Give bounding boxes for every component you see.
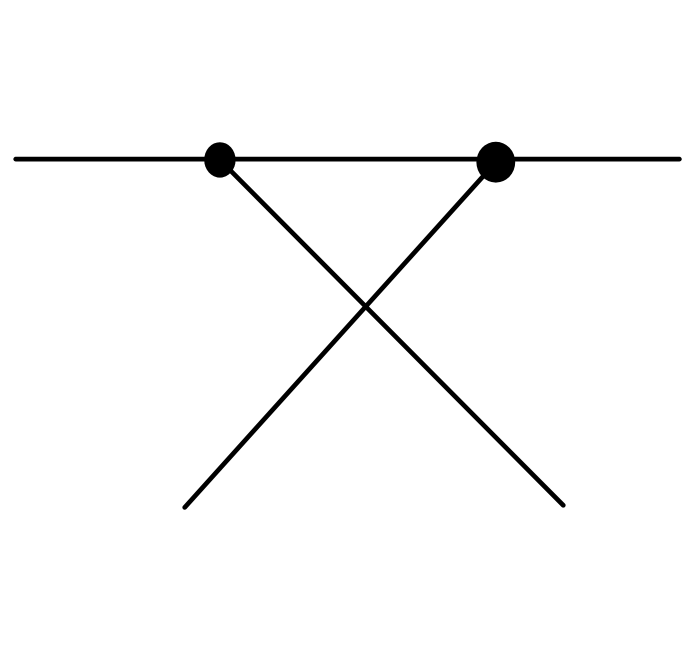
wire: diagonal from right node down-left <box>185 162 496 507</box>
node A: left vertex dot <box>204 142 235 177</box>
wire: horizontal line <box>16 157 680 162</box>
node B: right vertex dot <box>476 142 515 183</box>
wire: diagonal from left node down-right <box>220 160 563 505</box>
